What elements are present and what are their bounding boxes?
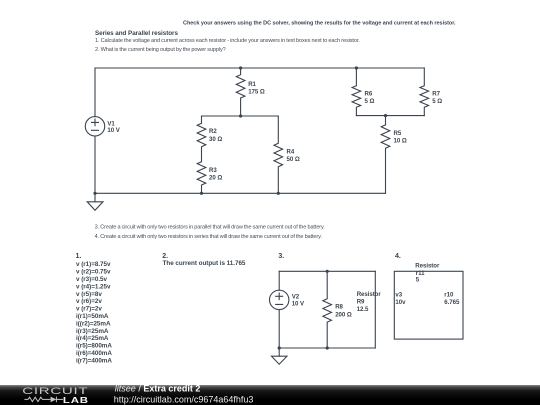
svg-text:R1: R1 [248,81,256,88]
svg-text:10 Ω: 10 Ω [394,138,407,145]
svg-text:v (r2)=0.75v: v (r2)=0.75v [76,269,111,276]
svg-text:6.765: 6.765 [444,299,460,306]
svg-text:200 Ω: 200 Ω [335,311,352,318]
svg-text:LAB: LAB [63,396,89,405]
svg-text:10v: 10v [395,299,406,306]
logo schematic line [24,397,63,403]
logo diode [51,397,57,403]
resistor R8 [323,271,332,348]
wire circuit4 box [394,271,463,339]
svg-text:4. Create a circuit with only: 4. Create a circuit with only two resist… [95,234,323,240]
svg-text:R6: R6 [365,91,373,98]
resistor R4 [274,116,283,193]
wire c3 right side [374,271,376,348]
svg-text:1. Calculate the voltage and c: 1. Calculate the voltage and current acr… [95,38,360,44]
svg-text:i(r1)=50mA: i(r1)=50mA [76,313,109,320]
node dot R8 top [326,270,329,273]
svg-text:Resistor: Resistor [357,291,382,298]
svg-text:Series and Parallel resistors: Series and Parallel resistors [95,30,178,37]
wire middle rail [202,115,279,117]
resistor R2 [197,116,206,162]
svg-text:i(r5)=800mA: i(r5)=800mA [76,343,112,350]
svg-text:v (r1)=8.75v: v (r1)=8.75v [76,261,111,268]
node dot R4 bottom [277,192,280,195]
svg-text:CIRCUIT: CIRCUIT [22,386,88,396]
wire bottom rail [95,192,386,194]
resistor R3 [197,162,206,194]
svg-text:v (r6)=2v: v (r6)=2v [76,298,102,305]
svg-text:R3: R3 [209,167,217,174]
svg-text:20 Ω: 20 Ω [209,175,222,182]
node dot R1 bottom [239,114,242,117]
svg-text:v (r7)=2v: v (r7)=2v [76,306,102,313]
svg-text:i(r3)=25mA: i(r3)=25mA [76,328,109,335]
wire c3 top rail [279,270,375,272]
svg-text:1.: 1. [76,253,82,260]
svg-text:2. What is the current being o: 2. What is the current being output by t… [95,47,226,53]
svg-text:10 V: 10 V [107,127,120,134]
ground c3 [278,348,280,356]
resistor R5 [381,116,390,194]
svg-text:5 Ω: 5 Ω [432,98,442,105]
svg-text:i(r4)=25mA: i(r4)=25mA [76,335,109,342]
svg-text:3. Create a circuit with only: 3. Create a circuit with only two resist… [95,224,326,230]
wire V2 bottom lead [278,310,280,348]
ground main [94,193,96,202]
node dot R6 top [355,66,358,69]
node dot ground-left [93,192,96,195]
node dot V2 ground [278,346,281,349]
svg-text:litsee / Extra credit 2: litsee / Extra credit 2 [115,384,201,394]
node dot R5 top [384,114,387,117]
svg-text:R8: R8 [335,304,343,311]
svg-text:10 V: 10 V [292,301,305,308]
node dot R8 bottom [326,346,329,349]
svg-text:v (r4)=1.25v: v (r4)=1.25v [76,283,111,290]
svg-text:i(r7)=400mA: i(r7)=400mA [76,357,112,364]
node dot R1 top [239,66,242,69]
svg-text:4.: 4. [395,253,401,260]
svg-text:v3: v3 [395,291,402,298]
resistor R6 [352,68,361,116]
svg-text:The current output is 11.765: The current output is 11.765 [163,260,246,267]
svg-text:5 Ω: 5 Ω [365,98,375,105]
wire top rail [95,67,424,69]
svg-text:Check your answers using the D: Check your answers using the DC solver, … [183,21,456,27]
svg-text:3.: 3. [278,253,284,260]
svg-text:R2: R2 [209,128,217,135]
svg-text:175 Ω: 175 Ω [248,88,265,95]
voltage source V2 [270,290,289,309]
svg-text:50 Ω: 50 Ω [287,156,300,163]
footer bar [0,385,540,405]
wire V1 bottom lead [94,136,96,193]
wire R6-R7 bottom rail [356,115,424,117]
voltage source V1 [85,117,104,136]
svg-text:V2: V2 [292,294,300,301]
svg-text:i((r2)=25mA: i((r2)=25mA [76,320,111,327]
svg-text:r10: r10 [444,291,454,298]
svg-text:v (r5)=8v: v (r5)=8v [76,291,102,298]
svg-text:R9: R9 [357,299,365,306]
svg-text:30 Ω: 30 Ω [209,136,222,143]
node dot R3 bottom [200,192,203,195]
svg-text:12.5: 12.5 [357,306,369,313]
svg-text:R4: R4 [287,149,295,156]
svg-text:i(r6)=400mA: i(r6)=400mA [76,350,112,357]
svg-text:http://circuitlab.com/c9674a64: http://circuitlab.com/c9674a64fhfu3 [114,395,254,405]
wire V1 top lead [94,68,96,117]
wire V2 top lead [278,271,280,290]
svg-text:5: 5 [416,277,420,284]
svg-text:Resistor: Resistor [415,262,440,269]
svg-text:v (r3)=0.5v: v (r3)=0.5v [76,276,108,283]
svg-text:R5: R5 [394,130,402,137]
resistor R1 [236,68,245,116]
wire c3 bottom rail [279,347,375,349]
resistor R7 [420,68,429,116]
svg-text:R7: R7 [432,91,440,98]
